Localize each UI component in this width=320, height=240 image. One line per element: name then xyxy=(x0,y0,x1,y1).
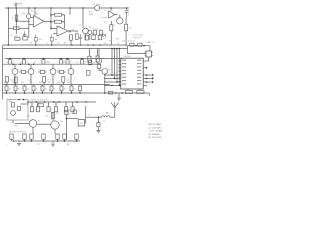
wire R2 right xyxy=(19,27,29,29)
svg-text:L1: L1 xyxy=(88,115,90,117)
wire C7 down xyxy=(51,41,53,45)
svg-text:L2: L2 xyxy=(103,121,105,123)
resistor RP1 xyxy=(88,56,91,62)
capacitor CB5 vertical xyxy=(73,110,76,114)
wire RN6 top xyxy=(51,85,53,86)
capacitor C6 polarized xyxy=(34,35,37,42)
resistor RD1 vertical xyxy=(6,76,9,82)
wire QP1-QP2 xyxy=(98,68,100,70)
wire R2 left xyxy=(8,27,13,29)
junction bus b xyxy=(50,21,52,23)
wire RN5 bot xyxy=(42,91,44,93)
wire rail B xyxy=(3,48,127,50)
svg-text:Q2: Q2 xyxy=(89,27,91,29)
wire left border to mic box xyxy=(1,93,3,100)
wire RC7 down xyxy=(76,139,78,141)
resistor RQ1 xyxy=(130,43,134,46)
svg-text:R17 R18 C12 R19: R17 R18 C12 R19 C14 xyxy=(9,132,26,134)
capacitor CM2 xyxy=(40,71,44,74)
resistor RC6 vertical xyxy=(63,134,66,139)
svg-text:.01: .01 xyxy=(64,89,66,91)
enclosure mic box xyxy=(7,100,28,121)
resistor RM6 vertical xyxy=(81,60,84,65)
svg-text:1k 2.2k: 1k 2.2k xyxy=(93,28,99,30)
svg-text:470: 470 xyxy=(12,82,15,84)
wire rail C xyxy=(5,58,122,60)
junction top rail B xyxy=(34,7,36,9)
transistor QM2 xyxy=(28,69,34,75)
wire RC1 down xyxy=(11,139,13,141)
resistor R5 xyxy=(94,30,97,35)
op-amp U2 buffer xyxy=(109,11,116,18)
svg-text:LM7001: LM7001 xyxy=(124,56,132,58)
junction rail E x71.5 xyxy=(71,92,73,94)
junction rail A left xyxy=(8,44,10,46)
wire left border vertical xyxy=(1,45,3,93)
junction rail C2 a xyxy=(12,63,14,65)
wire RN7 top xyxy=(61,85,63,86)
svg-text:C15: C15 xyxy=(27,116,30,118)
wire QP1 top xyxy=(98,49,100,59)
junction rail E x80.0 xyxy=(79,92,81,94)
svg-text:Q9: Q9 xyxy=(38,121,40,123)
junction rail C x82 xyxy=(81,58,83,60)
transistor QM3 xyxy=(50,69,56,75)
junction rail E x42.5 xyxy=(42,92,44,94)
wire RN6 bot xyxy=(51,91,53,93)
wire osc feed xyxy=(67,118,79,120)
transistor Q4 small xyxy=(88,30,92,34)
resistor RM3 vertical xyxy=(42,60,45,65)
wire R8 up xyxy=(125,17,127,24)
junction rail E g2 xyxy=(121,92,123,94)
svg-text:Q7: Q7 xyxy=(47,80,49,82)
wire U2 out xyxy=(115,14,118,16)
junction rail A x80 xyxy=(80,44,82,46)
resistor RB1 in box xyxy=(12,103,15,107)
wire CM1 l xyxy=(19,71,21,73)
resistor RD2 vertical xyxy=(14,77,17,83)
junction grid d2 xyxy=(114,78,116,80)
junction top rail D xyxy=(69,7,71,9)
svg-text:L1 8T #24 AIR: L1 8T #24 AIR xyxy=(149,130,163,133)
svg-text:.01: .01 xyxy=(6,62,8,64)
wire RN7 bot xyxy=(61,91,63,93)
crystal Y1 box xyxy=(146,51,152,57)
pin U3 left 3 xyxy=(118,67,120,69)
junction RQ b xyxy=(143,45,145,47)
label U3 pin name L1 xyxy=(122,60,126,61)
junction rail C2 d xyxy=(33,63,35,65)
arrow out3 xyxy=(151,81,154,83)
resistor RN7 vertical xyxy=(60,86,63,91)
resistor RN5 vertical xyxy=(41,86,44,91)
svg-text:SET: SET xyxy=(89,11,92,13)
svg-text:C9 100u: C9 100u xyxy=(93,4,101,6)
ground CB3 xyxy=(96,131,100,133)
ground bottom left xyxy=(17,143,21,145)
pin U3 right 8 xyxy=(143,84,147,86)
svg-text:R25: R25 xyxy=(46,116,49,118)
pin U3 left 1 xyxy=(118,60,120,62)
wire R7 up xyxy=(110,21,112,25)
svg-text:.01: .01 xyxy=(27,89,29,91)
label U3 pin name R3 xyxy=(137,66,141,67)
svg-text:C10: C10 xyxy=(19,70,22,72)
wire QB1 emitter down xyxy=(32,127,34,134)
wire CM1 r xyxy=(26,71,28,73)
wire RN1 bot xyxy=(6,91,8,93)
svg-text:C18: C18 xyxy=(126,89,129,91)
wire rail E hook down xyxy=(148,93,150,96)
wire R7 down xyxy=(110,31,112,45)
junction RQ a xyxy=(135,45,137,47)
wire top rail right half xyxy=(100,7,129,9)
resistor RN9 vertical xyxy=(79,86,82,91)
pin U3 right out1 xyxy=(143,74,150,76)
wire U1A in+ xyxy=(31,17,34,19)
resistor R1 oval xyxy=(27,14,31,19)
wire top +9V rail xyxy=(5,7,95,9)
wire gnd stub rail E xyxy=(118,93,120,98)
wire C4 down xyxy=(126,12,128,17)
label U3 pin name L6 xyxy=(122,77,126,78)
resistor RN4 vertical xyxy=(32,86,35,91)
junction C7 xyxy=(51,44,53,46)
svg-text:Q12: Q12 xyxy=(108,70,111,72)
svg-text:.01: .01 xyxy=(34,62,36,64)
op-amp U1B xyxy=(57,26,68,36)
svg-text:R4: R4 xyxy=(23,34,25,36)
wire RD3 stub xyxy=(43,82,45,84)
resistor RD4 vertical xyxy=(62,77,65,83)
svg-text:all res 1/4W: all res 1/4W xyxy=(133,35,143,37)
wire RN3 bot xyxy=(24,91,26,93)
svg-text:Q11: Q11 xyxy=(71,114,74,116)
wire RN8 bot xyxy=(71,91,73,93)
wire RN4 bot xyxy=(33,91,35,93)
wire RP2 up xyxy=(97,49,99,57)
capacitor CB4 vertical xyxy=(65,110,68,114)
wire x127.5 drop xyxy=(127,46,129,54)
svg-text:U2: U2 xyxy=(104,10,106,12)
resistor R2 (horizontal) xyxy=(14,27,20,30)
junction top rail F xyxy=(110,7,112,9)
diode D1 xyxy=(103,33,105,37)
wire coil feed xyxy=(86,116,102,118)
resistor RN3 vertical xyxy=(23,86,26,91)
capacitor C7 polarized xyxy=(50,35,53,42)
wire C2 left xyxy=(51,21,55,23)
junction V3 railB xyxy=(116,48,118,50)
junction rail C x67.5 xyxy=(67,58,69,60)
transistor QB1 xyxy=(29,120,37,128)
wire QM4 collector xyxy=(70,64,72,68)
wire RM2 stub xyxy=(23,59,25,60)
junction out2 xyxy=(146,78,148,80)
svg-text:U1a: U1a xyxy=(36,14,39,16)
svg-text:10k: 10k xyxy=(93,62,96,64)
wire x16.3 vertical xyxy=(15,8,17,34)
arrow out2 xyxy=(151,77,154,79)
wire QB1-QB2 link xyxy=(37,123,51,125)
label U3 pin name R6 xyxy=(137,77,141,78)
junction rail A x93.5 xyxy=(93,44,95,46)
resistor RB4 vertical xyxy=(36,107,39,112)
junction rail G g xyxy=(76,140,78,142)
wire RN8 top xyxy=(71,85,73,86)
wire bus vertical V3 xyxy=(116,49,118,83)
svg-text:S1: S1 xyxy=(103,39,105,41)
junction QP2 rail E xyxy=(104,92,106,94)
junction rail A x72 xyxy=(71,44,73,46)
wire grid H2 xyxy=(104,77,121,79)
transistor QB2 xyxy=(51,121,59,129)
pin U3 left 5 xyxy=(118,74,120,76)
label U3 pin name R5 xyxy=(137,73,141,74)
wire R3 left xyxy=(51,14,55,16)
resistor R8 vertical xyxy=(125,24,128,31)
wire gnd stub mid xyxy=(52,141,54,143)
svg-text:C4: C4 xyxy=(117,43,119,45)
svg-text:10u: 10u xyxy=(57,43,60,45)
label U3 pin name R4 xyxy=(137,70,141,71)
svg-text:1k: 1k xyxy=(85,62,87,64)
svg-text:1k: 1k xyxy=(27,62,29,64)
junction rail x16.3 xyxy=(15,7,17,9)
junction rail C x24 xyxy=(23,58,25,60)
junction mic box a xyxy=(18,99,20,101)
junction rail G c xyxy=(31,140,33,142)
IC U3 body xyxy=(121,58,143,89)
junction rail E x24.5 xyxy=(24,92,26,94)
wire drop x111 xyxy=(110,8,112,11)
pin U3 left 7 xyxy=(118,80,120,82)
wire RN2 bot xyxy=(15,91,17,93)
wire right pin1 up xyxy=(148,57,150,61)
wire x98.4 down xyxy=(97,117,99,122)
wire drop x125 to cap xyxy=(126,8,128,10)
svg-text:1k: 1k xyxy=(18,89,20,91)
wire x66.5 vertical xyxy=(66,115,68,140)
wire RD1 stub xyxy=(6,82,8,85)
wire U1B out xyxy=(68,30,78,32)
junction x66.5 xyxy=(66,118,68,120)
pin U3 right 2 xyxy=(143,67,147,69)
wire rail E xyxy=(3,92,149,94)
junction rail G a xyxy=(13,140,15,142)
svg-text:Q1 2N3904: Q1 2N3904 xyxy=(149,134,161,136)
wire grid H4 xyxy=(104,84,121,86)
junction rail x28.8 xyxy=(28,7,30,9)
junction rail F g xyxy=(85,101,87,103)
svg-text:Q8: Q8 xyxy=(67,80,69,82)
resistor R6 xyxy=(99,30,102,35)
label U3 pin name R8 xyxy=(137,83,141,84)
junction rail G e xyxy=(57,140,59,142)
svg-text:R3: R3 xyxy=(23,22,25,24)
junction rail E x15.5 xyxy=(15,92,17,94)
svg-text:caps in uF: caps in uF xyxy=(133,37,142,39)
wire y21.2 branch xyxy=(16,20,30,22)
junction V4 railB xyxy=(119,48,121,50)
transistor QM1 xyxy=(12,69,18,75)
svg-text:.01: .01 xyxy=(20,62,22,64)
wire y53.6 link xyxy=(128,53,147,55)
svg-text:1k: 1k xyxy=(54,89,56,91)
svg-text:1k: 1k xyxy=(13,62,15,64)
junction grid d1 xyxy=(111,74,113,76)
svg-text:1k: 1k xyxy=(51,110,53,112)
wire gnd stub left xyxy=(18,141,20,142)
label U3 pin name R7 xyxy=(137,80,141,81)
svg-text:C13: C13 xyxy=(67,82,70,84)
transistor Q2 xyxy=(83,28,89,34)
resistor R7 vertical xyxy=(110,25,113,31)
resistor RN8 vertical xyxy=(70,86,73,91)
wire RB5 stub xyxy=(48,102,50,107)
wire antenna mast xyxy=(114,108,116,117)
resistor RB3 vertical xyxy=(30,107,33,112)
wire RC6 down xyxy=(64,139,66,141)
wire coil to antenna xyxy=(110,116,115,118)
junction rail C2 b xyxy=(20,63,22,65)
pin U3 left 6 xyxy=(118,77,120,79)
junction rail E g1 xyxy=(115,92,117,94)
wire rail D xyxy=(3,84,110,86)
svg-text:R2: R2 xyxy=(31,11,33,13)
wire Q3 top xyxy=(119,15,121,18)
capacitor CM1 xyxy=(21,71,25,74)
resistor RN6 vertical xyxy=(50,86,53,91)
wire RP1 up xyxy=(88,49,90,57)
resistor RC7 vertical xyxy=(75,134,78,139)
svg-text:470: 470 xyxy=(30,82,33,84)
junction rail F d xyxy=(53,101,55,103)
junction rail E x61.5 xyxy=(61,92,63,94)
wire rail C2 xyxy=(3,63,100,65)
wire bus vertical V1 xyxy=(111,49,113,77)
resistor RN1 vertical xyxy=(5,86,8,91)
svg-text:R1 10K 1/4W: R1 10K 1/4W xyxy=(149,137,163,139)
wire RN9 bot xyxy=(79,91,81,93)
wire RM1 stub xyxy=(9,59,11,60)
label U3 pin name L5 xyxy=(122,73,126,74)
resistor R14 box xyxy=(85,35,88,40)
wire R1 to rail A xyxy=(28,19,30,29)
resistor RC1 vertical xyxy=(10,134,13,139)
resistor RB6 vertical xyxy=(54,107,57,112)
wire RB4 stub xyxy=(37,102,39,107)
op-amp U1A xyxy=(34,16,45,28)
junction rail F a xyxy=(27,101,29,103)
pin U3 right 1 xyxy=(143,60,149,62)
svg-text:5p: 5p xyxy=(68,110,70,112)
wire QP2 in xyxy=(99,69,102,72)
wire QM3 collector xyxy=(52,64,54,68)
svg-text:C16: C16 xyxy=(122,41,125,43)
wire U1A supply stub xyxy=(34,8,36,16)
resistor RC2 vertical xyxy=(23,134,26,139)
crystal Y1 ticks xyxy=(145,53,153,56)
wire CM3 r xyxy=(64,71,66,73)
svg-text:470: 470 xyxy=(48,82,51,84)
wire mic box down xyxy=(12,120,14,124)
svg-text:47k: 47k xyxy=(46,62,49,64)
wire RN5 top xyxy=(42,85,44,86)
svg-text:to ant sw: to ant sw xyxy=(128,40,136,43)
wire RM6 stub xyxy=(81,59,83,60)
svg-text:C3: C3 xyxy=(79,25,81,27)
svg-text:Q3: Q3 xyxy=(104,22,107,24)
junction right pin2 xyxy=(146,67,148,69)
svg-text:10k: 10k xyxy=(72,29,75,31)
wire QB1 left xyxy=(15,123,29,125)
wire rail G xyxy=(13,140,80,142)
svg-text:4.7k: 4.7k xyxy=(127,28,131,30)
resistor RM1 vertical xyxy=(9,60,12,65)
label U3 pin name L8 xyxy=(122,83,126,84)
wire QP2 down xyxy=(104,74,106,93)
svg-text:1k: 1k xyxy=(74,89,76,91)
junction mic box b xyxy=(23,99,25,101)
capacitor C8 vertical xyxy=(79,34,82,45)
wire RN9 top xyxy=(79,85,81,86)
junction U1B out xyxy=(69,30,71,32)
svg-text:R14: R14 xyxy=(85,33,88,35)
transistor QP1 xyxy=(96,58,102,64)
wire CB3 down xyxy=(97,127,99,130)
svg-text:.01: .01 xyxy=(76,62,78,64)
wire QM2 emitter xyxy=(30,74,32,84)
wire RC5 down xyxy=(57,139,59,141)
wire bus vertical V2 xyxy=(114,49,116,80)
wire RM4 stub xyxy=(60,59,62,60)
svg-text:1M: 1M xyxy=(62,15,65,17)
junction grid d3 xyxy=(116,81,118,83)
junction rail E x6.5 xyxy=(6,92,8,94)
resistor R1b on x16.3 xyxy=(15,15,18,20)
wire QM4 emitter xyxy=(70,74,72,84)
resistor R15 box xyxy=(92,35,95,40)
wire x85.7 vertical xyxy=(85,106,87,123)
resistor RM5 vertical xyxy=(66,60,69,65)
wire Q4 down xyxy=(89,34,91,40)
resistor RB7 vertical xyxy=(64,107,67,112)
antenna ANT1 xyxy=(111,102,119,108)
junction rail E x33.5 xyxy=(33,92,35,94)
inductor L1 coil xyxy=(101,116,110,117)
resistor RC4 vertical xyxy=(42,134,45,139)
svg-text:10k: 10k xyxy=(35,110,38,112)
wire left drop from rail xyxy=(7,8,9,45)
label U3 pin name L2 xyxy=(122,63,126,64)
capacitor CB3 xyxy=(97,123,100,127)
resistor RQ2 xyxy=(138,43,142,46)
svg-text:Q5: Q5 xyxy=(11,80,13,82)
junction rail C2 c xyxy=(28,63,30,65)
svg-text:R21: R21 xyxy=(4,82,7,84)
junction top rail C xyxy=(50,7,52,9)
svg-text:R16: R16 xyxy=(104,43,107,45)
resistor RP5 under QP1 xyxy=(97,64,101,68)
wire Q2 down xyxy=(85,34,87,40)
wire C6 down xyxy=(35,41,37,45)
junction rail F b xyxy=(36,101,38,103)
wire QM1 collector xyxy=(14,64,16,68)
svg-text:C19: C19 xyxy=(138,89,141,91)
wire RB6 stub xyxy=(55,102,57,107)
